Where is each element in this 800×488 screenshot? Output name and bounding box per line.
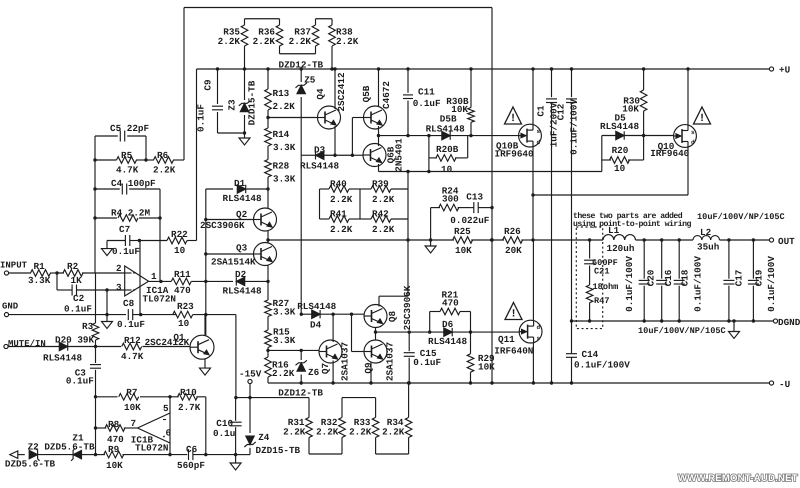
wire bias column [204, 189, 207, 335]
resistor R5 [93, 150, 147, 176]
svg-text:d: d [537, 324, 541, 331]
warning triangle Q10 [694, 107, 711, 125]
svg-text:!: ! [510, 113, 517, 125]
svg-text:Z3: Z3 [227, 99, 238, 111]
svg-text:2.2K: 2.2K [273, 101, 296, 112]
wire x=95 feedback column [94, 136, 96, 273]
capacitor C3 [66, 347, 101, 397]
transistor Q5B [361, 81, 392, 129]
watermark [678, 473, 798, 484]
svg-text:D4: D4 [310, 320, 322, 331]
svg-text:0.1u: 0.1u [213, 428, 235, 439]
svg-text:d: d [537, 139, 541, 146]
capacitor C14 [566, 321, 630, 385]
svg-text:3.3K: 3.3K [273, 307, 296, 318]
wire R20B loop left [427, 136, 430, 174]
svg-text:R47: R47 [594, 296, 609, 306]
svg-text:D6: D6 [442, 319, 454, 330]
wire +U rail [197, 69, 772, 241]
capacitor C15 [404, 332, 442, 385]
capacitor C8 [117, 298, 177, 330]
resistor R34 [382, 381, 412, 437]
resistor R31 [283, 398, 312, 438]
svg-text:s: s [537, 335, 541, 342]
svg-text:0.1uF: 0.1uF [413, 357, 441, 368]
wire Q6B base [352, 154, 363, 156]
capacitor C13 [450, 192, 492, 226]
resistor R1 [9, 261, 64, 286]
svg-text:0.1uF: 0.1uF [64, 304, 92, 315]
svg-text:2.2K: 2.2K [382, 427, 405, 438]
label Q1 type [145, 337, 190, 348]
svg-text:+U: +U [779, 65, 790, 76]
wire pin4-pin8 column [139, 241, 141, 315]
svg-text:GND: GND [2, 302, 19, 312]
resistor R28 [265, 160, 296, 209]
svg-text:Z5: Z5 [304, 74, 316, 85]
mosfet Q10 [650, 125, 696, 159]
svg-text:7: 7 [131, 418, 137, 429]
wire R33 R34 bottom bridge [376, 438, 409, 455]
capacitor C18 [674, 240, 704, 323]
svg-text:R22: R22 [171, 229, 188, 240]
zener Z2 [29, 448, 69, 460]
svg-text:MUTE/IN: MUTE/IN [8, 339, 46, 349]
wire out rail left [268, 239, 431, 241]
label IC1A [143, 285, 176, 305]
svg-text:R25: R25 [454, 226, 471, 237]
wire -15 bus [236, 397, 309, 399]
svg-text:C11: C11 [418, 87, 435, 98]
label IC1B [131, 435, 169, 454]
resistor R4 [93, 208, 161, 222]
svg-text:R40: R40 [330, 179, 347, 190]
svg-text:C17: C17 [734, 270, 745, 287]
svg-text:0.1uF/100V: 0.1uF/100V [574, 360, 630, 371]
diode D3 [300, 145, 352, 172]
svg-text:0.022uF: 0.022uF [450, 215, 489, 226]
svg-text:0.1uF: 0.1uF [66, 376, 94, 387]
zener Z3 [227, 69, 258, 133]
diode D1 [206, 178, 270, 204]
svg-text:18ohm: 18ohm [593, 282, 619, 292]
node R7 R10 junction [168, 395, 171, 398]
resistor R30B [446, 67, 474, 135]
node pin3 junction [105, 288, 108, 314]
node input junction [55, 271, 58, 274]
svg-text:RLS4148: RLS4148 [426, 123, 465, 134]
capacitor C12 [556, 67, 580, 322]
terminal DGND [773, 317, 800, 328]
svg-text:3.3K: 3.3K [273, 142, 296, 153]
wire Q10 drain [533, 147, 688, 195]
svg-text:!: ! [510, 309, 517, 321]
wire Q5B collector [377, 67, 380, 107]
svg-text:s: s [691, 129, 695, 136]
terminal mute [4, 344, 8, 348]
wire R35-R36 top bridge [245, 18, 280, 20]
svg-text:C9: C9 [203, 79, 214, 91]
svg-text:C5 22pF: C5 22pF [110, 123, 149, 134]
svg-text:RLS4148: RLS4148 [43, 353, 82, 364]
resistor R16 [265, 350, 295, 383]
ground DGND [729, 319, 740, 338]
ground C10 [230, 455, 241, 470]
svg-text:C4672: C4672 [381, 81, 392, 109]
transistor Q4 [315, 72, 347, 129]
wire out rail between inductors [636, 238, 694, 241]
wire DGND rail [572, 320, 774, 322]
svg-text:300: 300 [442, 194, 459, 205]
label MUTE/IN [8, 339, 46, 349]
wire Z5 column lower [300, 155, 302, 314]
wire pin6 drop [168, 443, 171, 456]
svg-text:2: 2 [116, 263, 122, 274]
zener Z1 [70, 448, 96, 460]
wire Q6B collector [378, 164, 380, 172]
zener Z4 [244, 398, 300, 457]
svg-text:6: 6 [166, 428, 172, 439]
svg-text:IRF640N: IRF640N [494, 345, 533, 356]
resistor R8 [96, 419, 138, 445]
svg-text:C13: C13 [466, 192, 483, 203]
box point-to-point dotted [576, 227, 602, 329]
node bias column top of D2 [204, 280, 207, 283]
resistor R13 [265, 69, 296, 128]
svg-text:0.1uF: 0.1uF [117, 319, 145, 330]
op-amp IC1A [125, 266, 149, 296]
svg-text:10: 10 [178, 318, 190, 329]
label pin7 [131, 418, 137, 429]
wire C5 right leg [145, 136, 147, 160]
ground R25 left [425, 240, 436, 253]
svg-text:10uF/100V/NP/105C: 10uF/100V/NP/105C [638, 326, 726, 336]
resistor R11 [149, 269, 233, 296]
svg-text:2.2K: 2.2K [289, 36, 312, 47]
svg-text:0.1uF: 0.1uF [112, 246, 140, 257]
wire Q10 source [686, 67, 689, 125]
svg-text:R26: R26 [504, 226, 521, 237]
resistor R2 [57, 261, 125, 286]
svg-text:INPUT: INPUT [0, 261, 28, 271]
svg-text:2.7K: 2.7K [178, 402, 201, 413]
svg-text:C1: C1 [536, 105, 547, 117]
svg-text:R7: R7 [126, 387, 137, 398]
resistor R20 [602, 136, 644, 175]
svg-text:RLS4148: RLS4148 [600, 121, 639, 132]
wire pin1 out [159, 280, 162, 283]
capacitor C4 [93, 178, 160, 195]
svg-text:R39: R39 [372, 179, 389, 190]
svg-text:10K: 10K [622, 104, 639, 115]
svg-text:2.2K: 2.2K [316, 427, 339, 438]
warning triangle Q11 [505, 303, 522, 321]
svg-text:2SA1037: 2SA1037 [340, 342, 351, 381]
svg-text:D5B: D5B [440, 114, 457, 125]
svg-text:RLS4148: RLS4148 [428, 336, 467, 347]
terminal gnd [4, 313, 8, 317]
wire R40R41 left bracket [319, 189, 321, 219]
diode D2 [223, 269, 270, 297]
resistor R40 [320, 179, 361, 206]
mosfet Q11 [494, 320, 542, 356]
svg-text:0.1uF/100V: 0.1uF/100V [569, 99, 580, 155]
wire R24 loop left [429, 208, 432, 242]
svg-text:5: 5 [163, 403, 169, 414]
svg-text:1: 1 [151, 271, 157, 282]
wire R39R42 mid link [359, 189, 361, 219]
node R13 top [266, 67, 269, 70]
svg-text:0.1uF: 0.1uF [413, 98, 441, 109]
svg-text:C14: C14 [582, 349, 599, 360]
svg-text:DZD15-TB: DZD15-TB [247, 80, 258, 125]
resistor R7 [96, 387, 171, 413]
capacitor C10 [213, 398, 242, 455]
resistor R36 [253, 19, 283, 54]
svg-text:C7: C7 [119, 224, 130, 235]
resistor R27 [265, 298, 296, 318]
node D6 line joints [408, 330, 473, 333]
resistor R29 [467, 332, 495, 385]
svg-text:C20: C20 [646, 269, 657, 286]
svg-text:470: 470 [174, 285, 191, 296]
svg-text:2N5401: 2N5401 [394, 138, 405, 172]
wire R39-R42 bracket column [406, 170, 409, 296]
label pin1 [151, 271, 157, 282]
wire top feedback line [184, 8, 492, 241]
wire Q4 base [268, 117, 318, 119]
wire R36-R37 bottom bridge [280, 53, 316, 55]
svg-text:Z6: Z6 [308, 367, 320, 378]
svg-text:0.1uF/100V: 0.1uF/100V [624, 256, 635, 312]
svg-text:DZD15-TB: DZD15-TB [256, 445, 301, 456]
svg-text:2SC3906K: 2SC3906K [200, 220, 245, 231]
wire Q11 source [532, 343, 535, 385]
capacitor C5 [95, 123, 149, 142]
wire pin5 riser [169, 397, 171, 413]
svg-text:R12: R12 [124, 335, 141, 346]
ground C7 [102, 241, 113, 256]
transistor Q2 [200, 208, 277, 231]
inductor L1 [603, 225, 635, 254]
ground below Z3 [239, 138, 250, 145]
svg-text:10uF/100V/NP/105C: 10uF/100V/NP/105C [697, 212, 785, 222]
svg-text:2.2K: 2.2K [253, 36, 276, 47]
svg-text:TL072N: TL072N [135, 443, 168, 454]
label GND [2, 302, 19, 312]
label -15V [239, 368, 262, 379]
label DZD12-TB top [279, 60, 324, 71]
label DZD bottom [5, 459, 56, 470]
svg-text:using point-to-point wiring: using point-to-point wiring [573, 220, 691, 229]
svg-text:10K: 10K [478, 362, 495, 373]
svg-text:R14: R14 [273, 129, 290, 140]
svg-text:s: s [537, 128, 541, 135]
svg-text:C12: C12 [556, 103, 567, 120]
svg-text:R2: R2 [67, 261, 79, 272]
svg-text:R42: R42 [372, 209, 389, 220]
wire C9-Z3 ground link [218, 131, 247, 138]
wire gnd rail [9, 313, 126, 316]
svg-text:2SA1514K: 2SA1514K [211, 257, 256, 268]
wire R32 R33 top bridge [342, 397, 376, 399]
zener Z6 [296, 350, 320, 384]
wire drive line riser x=601.8 [601, 136, 603, 172]
diode D20 [8, 335, 96, 364]
svg-text:RLS4148: RLS4148 [300, 161, 339, 172]
svg-text:R28: R28 [273, 161, 290, 172]
diode D5 [600, 113, 639, 140]
resistor R39 [360, 179, 408, 206]
resistor R32 [316, 398, 345, 438]
capacitor C2 [64, 285, 125, 315]
svg-text:R9: R9 [108, 444, 120, 455]
resistor R24 [431, 186, 472, 211]
svg-text:2.2K: 2.2K [336, 36, 359, 47]
svg-text:Z4: Z4 [258, 432, 270, 443]
wire out rail right [720, 238, 770, 241]
svg-text:L2: L2 [700, 227, 712, 238]
svg-text:IRF9640: IRF9640 [650, 148, 689, 159]
svg-text:0.1uF/100V: 0.1uF/100V [693, 256, 704, 312]
label pin5 [163, 403, 169, 414]
svg-text:4.7K: 4.7K [116, 165, 139, 176]
svg-text:-U: -U [779, 379, 790, 390]
label 10uF top [697, 212, 785, 222]
svg-text:IRF9640: IRF9640 [495, 149, 534, 160]
label Z1 [72, 432, 84, 443]
label 10uF bottom [638, 326, 726, 336]
svg-text:10: 10 [614, 163, 626, 174]
svg-text:Q7: Q7 [320, 363, 331, 374]
svg-text:R3: R3 [82, 321, 94, 332]
wire gate line right [602, 134, 674, 137]
node gate line joints [427, 134, 473, 137]
svg-text:!: ! [699, 113, 706, 125]
wire Q7 collector [331, 313, 334, 343]
resistor R12 [96, 335, 191, 362]
capacitor C7 [107, 224, 141, 257]
svg-text:0.1uF: 0.1uF [196, 104, 207, 132]
svg-text:C21: C21 [594, 267, 609, 277]
svg-text:10K: 10K [106, 460, 123, 471]
svg-text:d: d [691, 139, 695, 146]
wire R31 R32 bottom bridge [309, 438, 342, 455]
svg-text:R20B: R20B [436, 144, 459, 155]
wire x=160 column C4 to pin1 [159, 189, 161, 281]
resistor R33 [349, 398, 379, 438]
wire Q3 base [204, 252, 253, 255]
svg-text:D3: D3 [314, 145, 326, 156]
resistor R25 [431, 226, 504, 256]
capacitor C16 [656, 240, 674, 323]
svg-text:20K: 20K [505, 245, 522, 256]
svg-text:2.2K: 2.2K [372, 224, 395, 235]
svg-text:470: 470 [442, 298, 459, 309]
terminal arrow left [10, 451, 18, 459]
transistor Q7 [319, 340, 351, 381]
resistor R30 [622, 67, 647, 135]
svg-text:TL072N: TL072N [143, 294, 176, 305]
svg-text:R1: R1 [34, 261, 46, 272]
resistor R3 [82, 273, 99, 347]
wire C2 branch [57, 273, 72, 290]
svg-text:4.7K: 4.7K [121, 351, 144, 362]
svg-text:10K: 10K [124, 402, 141, 413]
svg-text:OUT: OUT [778, 236, 795, 247]
capacitor C19 [748, 240, 777, 323]
transistor Q6B [363, 138, 405, 172]
terminal +U [769, 65, 790, 76]
wire Q5B base link [351, 118, 364, 157]
wire R37-R38 top bridge [316, 18, 333, 20]
label pin2 [116, 263, 122, 274]
wire Q10B drain column [531, 193, 534, 241]
label Z2 line [28, 441, 95, 452]
svg-text:Q1: Q1 [173, 332, 185, 343]
wire Q8-Q9 base link [352, 314, 365, 351]
wire Q2 base [204, 218, 253, 221]
diode D4 [297, 301, 364, 331]
node C6 line joints [204, 453, 237, 456]
svg-text:3.3K: 3.3K [273, 335, 296, 346]
wire D6 line [376, 331, 520, 333]
svg-text:R6: R6 [157, 150, 169, 161]
svg-text:10K: 10K [455, 245, 472, 256]
svg-text:R4 2.2M: R4 2.2M [111, 208, 150, 219]
diode D6 [428, 319, 467, 347]
svg-text:D2: D2 [235, 269, 247, 280]
wire Q8 emitter to Q9 collector [374, 328, 377, 341]
resistor R9 [96, 444, 188, 471]
wire Z4 bottom link [236, 454, 250, 456]
transistor Q3 [211, 243, 277, 268]
svg-text:2.2K: 2.2K [218, 36, 241, 47]
terminal OUT [769, 236, 795, 247]
resistor R26 [503, 226, 533, 256]
svg-text:R20: R20 [612, 145, 629, 156]
resistor R15 [265, 317, 296, 351]
node feedback junctions on x=492 [490, 206, 493, 242]
capacitor C6 [177, 444, 236, 471]
svg-text:2.2K: 2.2K [349, 427, 372, 438]
svg-text:Q4: Q4 [315, 88, 326, 100]
mosfet Q10B [495, 124, 542, 159]
svg-text:DZD5.6-TB: DZD5.6-TB [5, 459, 56, 470]
ground C8 [102, 315, 113, 329]
wire Q7 emitter [331, 361, 334, 385]
svg-text:RLS4148: RLS4148 [223, 286, 262, 297]
resistor R37 [289, 19, 319, 54]
svg-text:2.2K: 2.2K [283, 427, 306, 438]
svg-text:D20 39K: D20 39K [55, 335, 94, 346]
capacitor C21 [584, 240, 618, 285]
svg-text:R10: R10 [180, 387, 197, 398]
label note line1 [573, 212, 683, 221]
transistor Q8 [364, 285, 413, 330]
wire Q10B source [531, 67, 534, 124]
wire Q1 collector [204, 315, 206, 336]
wire x=492 lower segment to -U rail [490, 240, 493, 385]
svg-text:3: 3 [116, 282, 122, 293]
svg-text:Q9: Q9 [363, 362, 374, 374]
wire Q5B-Q6B emitters [377, 126, 380, 146]
wire Q4 collector [333, 67, 336, 109]
svg-text:R23: R23 [177, 301, 194, 312]
resistor R14 [265, 128, 296, 160]
svg-text:R11: R11 [174, 269, 191, 280]
label DZD12-TB bottom [278, 387, 323, 398]
